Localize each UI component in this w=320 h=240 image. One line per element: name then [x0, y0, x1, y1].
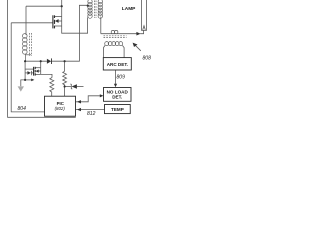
svg-text:ARC DET.: ARC DET. — [107, 62, 128, 67]
svg-text:809: 809 — [117, 74, 126, 80]
svg-text:LAMP: LAMP — [122, 6, 136, 12]
svg-text:808: 808 — [143, 56, 152, 62]
svg-text:(802): (802) — [55, 106, 66, 111]
svg-text:DET.: DET. — [112, 95, 122, 100]
svg-text:804: 804 — [18, 106, 27, 112]
svg-text:812: 812 — [87, 111, 96, 117]
svg-text:TEMP: TEMP — [111, 107, 124, 112]
